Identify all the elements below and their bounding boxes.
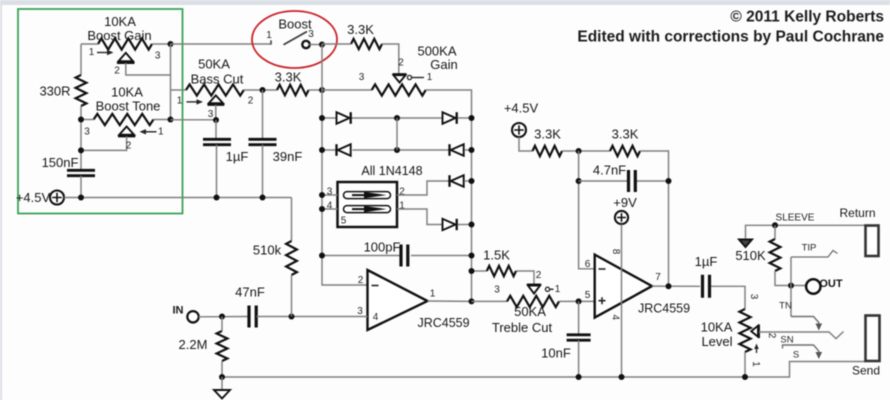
capacitor 10nF <box>567 335 591 340</box>
junction bias rail at 81 <box>78 195 84 201</box>
op-amp U1 JRC4559 <box>368 270 428 330</box>
svg-text:3: 3 <box>308 29 314 40</box>
wire TN contact <box>791 317 819 327</box>
junction dip pin4 <box>319 206 325 212</box>
wire 1.5K row <box>472 270 487 272</box>
resistor 3.3K (top row) <box>351 39 382 49</box>
junction 10nF tap <box>576 298 582 304</box>
gain pin1 bubble-dash <box>407 75 411 79</box>
wire row3 to rail <box>465 180 472 182</box>
junction U1 out <box>469 298 475 304</box>
svg-text:Level: Level <box>701 334 732 349</box>
U2 minus sign <box>599 268 606 270</box>
svg-text:2: 2 <box>536 270 542 281</box>
svg-text:1µF: 1µF <box>226 149 249 164</box>
power +9V supply <box>615 211 628 224</box>
ground symbol sleeve <box>739 240 752 248</box>
svg-text:6: 6 <box>585 259 591 270</box>
svg-text:330R: 330R <box>39 84 70 99</box>
wire U1 output <box>428 300 472 302</box>
diode D5 row3 <box>448 175 450 187</box>
junction fb mid <box>576 148 582 154</box>
svg-text:1: 1 <box>427 72 433 83</box>
svg-text:+4.5V: +4.5V <box>16 190 51 205</box>
wire 510K bottom stem <box>775 271 806 286</box>
junction row1 mid <box>394 115 400 121</box>
level wiper arrow <box>756 347 758 354</box>
wire 150nF to bias rail <box>80 176 82 198</box>
svg-text:3: 3 <box>208 109 214 120</box>
wire 39nF stem <box>262 90 264 139</box>
wire fb right corner <box>640 151 669 286</box>
svg-text:3: 3 <box>494 285 500 296</box>
wire rail to gain pot <box>322 89 372 91</box>
svg-text:3: 3 <box>748 294 759 300</box>
wire 330R to 150nF <box>80 106 82 170</box>
junction 510k input node <box>289 314 295 320</box>
svg-text:+4.5V: +4.5V <box>504 101 539 116</box>
svg-text:510k: 510k <box>253 243 282 258</box>
svg-text:2: 2 <box>766 333 777 339</box>
junction 10nF ground <box>576 374 582 380</box>
junction boost tone right <box>168 117 174 123</box>
switch Boost lever <box>284 32 308 45</box>
svg-text:3: 3 <box>327 187 333 198</box>
junction dip pin3 <box>319 192 325 198</box>
junction 2.2M ground <box>219 374 225 380</box>
wire gain right lead <box>426 90 472 118</box>
capacitor 4.7nF <box>629 170 636 192</box>
wire +4.5V bias rail <box>64 197 292 199</box>
svg-text:1: 1 <box>399 201 405 212</box>
wire bass wiper to 1uF <box>215 120 217 139</box>
junction 100pF right <box>469 253 475 259</box>
dip switch box <box>338 182 398 227</box>
left edge strip <box>0 5 2 400</box>
svg-text:Boost Tone: Boost Tone <box>96 99 161 114</box>
capacitor 1uF output <box>703 275 710 298</box>
svg-text:50KA: 50KA <box>514 304 546 319</box>
svg-text:2: 2 <box>126 141 132 152</box>
junction 39nF tap <box>260 87 266 93</box>
svg-text:2: 2 <box>398 58 404 69</box>
wire 510k upper stem <box>291 198 293 242</box>
svg-text:5: 5 <box>585 290 591 301</box>
junction U2 pin4 ground <box>619 374 625 380</box>
svg-text:1: 1 <box>177 96 183 107</box>
diode D4 row2 right <box>448 144 450 156</box>
wire 1uF to bias rail <box>216 145 218 198</box>
wire +9V through U2 <box>621 224 623 377</box>
svg-text:4: 4 <box>610 315 621 321</box>
svg-text:1.5K: 1.5K <box>483 248 510 263</box>
svg-text:3.3K: 3.3K <box>347 22 374 37</box>
jack Return <box>866 226 879 257</box>
svg-text:3.3K: 3.3K <box>612 127 639 142</box>
svg-text:2: 2 <box>248 96 254 107</box>
wire ground stub <box>221 377 223 390</box>
wire boost tone junction to bass wiper <box>171 119 217 121</box>
svg-text:3: 3 <box>84 127 90 138</box>
resistor 3.3K (fb right) <box>610 146 640 156</box>
svg-text:All 1N4148: All 1N4148 <box>361 164 422 178</box>
junction row2 mid <box>394 147 400 153</box>
wire ground rail <box>222 362 865 378</box>
boost tone wiper <box>119 127 134 135</box>
wire switch to junction <box>309 44 322 46</box>
wire 39nF to bias rail <box>262 145 264 198</box>
svg-text:2: 2 <box>358 275 364 286</box>
svg-text:7: 7 <box>655 272 661 283</box>
diode D1 row1 left <box>337 112 350 124</box>
power +4.5V supply 2 <box>512 123 526 137</box>
wire 1uF out to level <box>711 286 745 309</box>
svg-text:4: 4 <box>373 312 379 323</box>
svg-text:4.7nF: 4.7nF <box>593 163 626 178</box>
wire diode row1 segs <box>322 117 336 119</box>
svg-text:TN: TN <box>779 301 792 312</box>
svg-text:1: 1 <box>158 127 164 138</box>
svg-text:1: 1 <box>89 47 95 58</box>
arrow boost tone pin1 <box>144 131 157 133</box>
svg-text:Treble Cut: Treble Cut <box>492 320 553 335</box>
junction row2 left <box>319 147 325 153</box>
svg-text:10KA: 10KA <box>701 320 733 335</box>
wire boost gain to switch <box>171 43 272 45</box>
wire junction to 3.3K <box>322 43 351 45</box>
junction 1.5K left <box>469 268 475 274</box>
resistor 3.3K (fb left) <box>533 146 563 156</box>
wire 510k lower stem <box>291 275 293 317</box>
potentiometer Treble Cut 50KA <box>507 296 559 307</box>
wire boost gain wiper to rail <box>126 63 171 75</box>
svg-text:SLEEVE: SLEEVE <box>776 213 815 224</box>
wire inner right rail <box>170 44 172 120</box>
junction switch out <box>319 42 325 48</box>
svg-text:S: S <box>793 350 799 361</box>
wire 47nF to U1 pin3 <box>257 316 368 318</box>
boost gain wiper <box>119 53 134 61</box>
diode D3 row2 left <box>335 144 337 156</box>
potentiometer Gain 500KA <box>372 84 426 95</box>
capacitor 1uF (bass) <box>203 139 231 144</box>
svg-text:IN: IN <box>173 305 184 317</box>
level wiper <box>758 325 760 339</box>
SN contact arrowhead <box>816 352 823 359</box>
svg-text:Edited with corrections by Pau: Edited with corrections by Paul Cochrane <box>577 29 884 46</box>
switch Boost pin1 tick <box>270 40 272 44</box>
svg-text:1: 1 <box>750 361 761 367</box>
wire treble row right <box>559 300 595 302</box>
potentiometer Boost Tone 10KA <box>94 114 154 125</box>
svg-text:10nF: 10nF <box>541 346 571 361</box>
svg-text:3: 3 <box>155 51 161 62</box>
svg-text:100pF: 100pF <box>364 240 401 255</box>
svg-text:1: 1 <box>266 30 272 41</box>
op-amp U2 JRC4559 <box>595 255 652 318</box>
wire diode row2 segs <box>322 149 336 151</box>
wire dip pin3 stub <box>322 194 338 196</box>
svg-text:5: 5 <box>341 216 347 227</box>
jack Send <box>866 316 880 362</box>
wire 3.3K to gain wiper <box>382 44 399 74</box>
wire dip pin4 stub <box>322 208 338 210</box>
switch Boost contact <box>302 41 309 48</box>
wire left diode rail <box>322 44 368 285</box>
junction bass wiper node <box>213 117 219 123</box>
TN contact arrowhead <box>816 324 823 331</box>
U2 plus sign <box>599 297 606 304</box>
dip switch slider 1 <box>344 192 391 199</box>
power +4.5V supply symbol <box>50 191 64 205</box>
wire sleeve line <box>746 225 866 238</box>
resistor 3.3K (bass row) <box>277 85 309 95</box>
arrow boost gain pin1 <box>97 52 110 54</box>
dip switch slider 2 <box>344 206 391 213</box>
wire level bottom <box>744 352 746 377</box>
svg-text:Boost: Boost <box>278 17 312 32</box>
wire 100pF row left <box>322 255 400 257</box>
resistor 1.5K <box>487 266 516 276</box>
wire 4.7nF row <box>579 180 628 182</box>
junction row2 right <box>469 147 475 153</box>
junction row1 left <box>319 115 325 121</box>
svg-text:2: 2 <box>114 66 120 77</box>
svg-text:OUT: OUT <box>819 278 843 290</box>
resistor 510K output <box>770 239 781 271</box>
wire 10nF lower stem <box>578 340 580 377</box>
wire level wiper to send tip <box>759 332 844 339</box>
junction 1uF bias <box>214 195 220 201</box>
junction boost gain out <box>168 41 174 47</box>
wire treble row left <box>472 300 508 302</box>
svg-text:510K: 510K <box>735 248 766 263</box>
wire bass wiper stem <box>215 105 217 120</box>
bass cut wiper <box>209 95 223 103</box>
svg-text:1µF: 1µF <box>695 254 718 269</box>
svg-text:2.2M: 2.2M <box>179 337 208 352</box>
junction level ground <box>742 374 748 380</box>
junction 2.2M tap <box>219 314 225 320</box>
wire boost tone left lead <box>81 119 94 121</box>
junction 100pF left <box>319 253 325 259</box>
wire 510K top stem <box>774 225 776 239</box>
svg-text:4: 4 <box>327 201 333 212</box>
browser top bar <box>0 0 890 5</box>
junction wiper-left-rail <box>78 147 84 153</box>
junction 510K sleeve <box>772 222 778 228</box>
jack IN circle <box>187 311 198 322</box>
svg-text:2: 2 <box>399 187 405 198</box>
wire mid diode link <box>396 118 398 150</box>
svg-text:Return: Return <box>839 206 875 220</box>
wire right diode rail <box>471 118 473 301</box>
svg-text:39nF: 39nF <box>273 149 303 164</box>
junction row1 right <box>469 115 475 121</box>
red ellipse around boost switch <box>252 11 337 68</box>
wire pin6 vertical <box>579 151 595 269</box>
diode D6 row4 <box>443 219 456 230</box>
capacitor 100pF <box>401 245 408 267</box>
svg-text:SN: SN <box>780 335 793 346</box>
svg-text:Gain: Gain <box>430 57 457 72</box>
svg-text:1: 1 <box>430 289 436 300</box>
junction diode rail top2 <box>319 87 325 93</box>
ground symbol main <box>214 390 230 399</box>
svg-text:1: 1 <box>555 284 561 295</box>
junction row4 right <box>469 222 475 228</box>
wire SN contact <box>783 345 819 355</box>
svg-text:3: 3 <box>359 72 365 83</box>
wire 10nF upper stem <box>578 301 580 334</box>
capacitor 150nF <box>67 170 95 175</box>
svg-text:150nF: 150nF <box>42 155 79 170</box>
capacitor 39nF <box>249 139 277 144</box>
resistor 2.2M <box>217 331 228 361</box>
wire rail to bass cut <box>171 89 187 91</box>
svg-text:© 2011 Kelly Roberts: © 2011 Kelly Roberts <box>730 9 884 26</box>
svg-text:8: 8 <box>610 249 621 255</box>
svg-text:Boost Gain: Boost Gain <box>87 28 151 43</box>
capacitor 47nF <box>249 306 256 328</box>
wire tip contact <box>791 251 838 258</box>
svg-text:10KA: 10KA <box>111 85 143 100</box>
treble pin1 bubble-dash <box>545 287 549 291</box>
svg-text:Send: Send <box>852 364 880 378</box>
svg-text:3: 3 <box>357 306 363 317</box>
junction row3 right <box>469 178 475 184</box>
wire row4 to rail <box>458 224 472 226</box>
svg-text:TIP: TIP <box>802 243 817 254</box>
wire left rail top segment <box>80 44 82 75</box>
junction boost tone left <box>78 117 84 123</box>
jack OUT circle <box>806 279 820 293</box>
wire IN to 47nF <box>199 316 248 318</box>
potentiometer Level 10KA <box>739 309 750 352</box>
svg-text:3.3K: 3.3K <box>275 70 302 85</box>
svg-text:Bass Cut: Bass Cut <box>191 72 244 87</box>
svg-text:JRC4559: JRC4559 <box>417 316 469 330</box>
green highlight box (boost section) <box>18 9 183 214</box>
potentiometer Bass Cut 50KA <box>186 84 244 95</box>
wire 2.2M stems <box>221 317 223 332</box>
svg-text:3.3K: 3.3K <box>534 127 561 142</box>
svg-text:47nF: 47nF <box>235 285 265 300</box>
arrow bass cut pin1 <box>187 101 200 103</box>
svg-text:JRC4559: JRC4559 <box>638 302 690 316</box>
wire boost tone wiper to left rail <box>81 136 127 150</box>
wire fb mid <box>562 150 610 152</box>
junction U2 out <box>666 283 672 289</box>
resistor 330R <box>76 75 87 106</box>
junction 4.7nF right <box>666 178 672 184</box>
junction 39nF bias <box>260 195 266 201</box>
wire boost tone right lead <box>153 119 170 121</box>
U1 minus sign <box>372 285 379 287</box>
wire 3.3K to diode rail <box>309 89 322 91</box>
wire boost gain left lead <box>81 43 98 45</box>
svg-text:+9V: +9V <box>613 195 637 210</box>
wire U2 output <box>652 285 700 287</box>
gain wiper <box>393 73 407 75</box>
potentiometer Boost Gain 10KA <box>98 38 152 49</box>
svg-text:50KA: 50KA <box>198 57 230 72</box>
wire dip pin2 to diode row3 <box>397 181 449 195</box>
treble wiper <box>527 284 541 286</box>
svg-text:10KA: 10KA <box>104 14 136 29</box>
wire 100pF row right <box>411 255 472 257</box>
wire tip vertical <box>790 257 792 317</box>
resistor 510k <box>286 241 297 275</box>
wire dip pin1 to diode row4 <box>397 209 442 225</box>
wire bass cut right lead <box>244 89 277 91</box>
wire supply2 stem <box>519 137 533 151</box>
wire boost gain right lead <box>152 43 171 45</box>
diode D2 row1 right <box>443 112 456 124</box>
junction tip node <box>788 283 794 289</box>
junction 4.7nF left <box>576 178 582 184</box>
